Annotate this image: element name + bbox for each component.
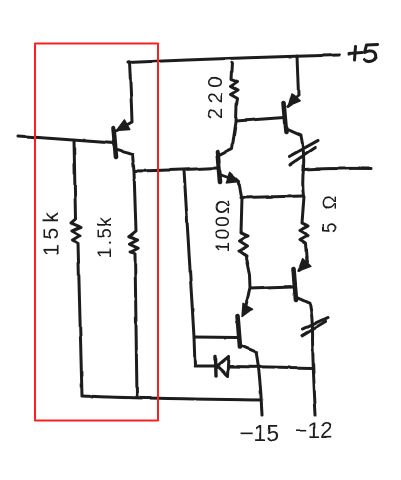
wire Q3 base node down to Q4 base and diode [184,170,195,366]
wire Q4 base [194,336,237,340]
wire bottom return [82,396,261,400]
svg-text:5 Ω: 5 Ω [320,192,341,233]
diode D1 [195,357,311,377]
transistor Q5 base bar [294,269,297,300]
wire +5 top rail [128,55,339,63]
wire 220/Q3 collector node to Q2 base [236,118,284,122]
transistor Q3 emitter lead with arrow [220,172,241,197]
wire output tap to the right [304,168,372,169]
svg-text:−12: −12 [295,418,332,443]
transistor Q4 collector lead down to -15 [240,345,262,415]
break mark (double slash) on Q5 collector [302,318,328,336]
highlight rectangle (red annotation box) [35,44,158,421]
resistor R1 220 [231,63,239,122]
transistor Q4 base bar [238,316,241,347]
transistor Q1 emitter lead with arrow [117,62,133,131]
svg-text:−15: −15 [240,420,279,446]
transistor Q3 collector lead [220,122,236,155]
resistor R5 5 ohm [299,197,309,271]
wire Q1 collector node to Q3 base [135,168,217,171]
transistor Q1 collector lead [116,149,132,154]
transistor Q1 base bar [114,128,117,157]
transistor Q2 collector lead down through break to output node [286,129,304,197]
break mark (double slash) on Q2 collector [289,141,318,165]
transistor Q5 emitter arrow [298,259,310,271]
wire Q3 emitter node horizontal [241,196,304,198]
resistor R2 15k [71,140,82,396]
resistor R4 100 ohm [240,198,251,314]
transistor Q3 base bar [218,152,221,182]
resistor R3 1.5k [129,154,138,397]
transistor Q5 collector lead down through break to -12 [296,297,316,415]
wire input to Q1 base [18,136,114,143]
transistor Q2 base bar [284,103,287,132]
wire 100 ohm node to Q5 base [250,287,293,289]
transistor Q4 emitter arrow [242,303,253,316]
node +5 label [349,45,378,62]
svg-text:1.5k: 1.5k [95,215,116,258]
svg-text:100Ω: 100Ω [213,198,234,252]
transistor Q2 emitter lead with arrow [288,56,300,107]
svg-text:15k: 15k [40,207,63,256]
svg-text:220: 220 [205,72,227,119]
